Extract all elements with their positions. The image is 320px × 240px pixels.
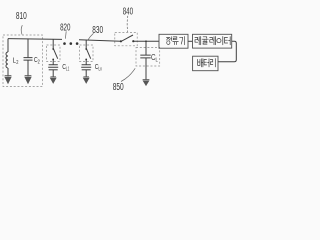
svg-text:Ln: Ln: [99, 67, 102, 73]
svg-text:2: 2: [16, 60, 18, 66]
svg-text:810: 810: [16, 11, 27, 22]
svg-text:L1: L1: [66, 67, 69, 73]
svg-text:2: 2: [38, 60, 40, 66]
svg-text:850: 850: [113, 82, 124, 93]
svg-text:L: L: [156, 58, 158, 64]
svg-text:820: 820: [60, 23, 71, 34]
svg-text:830: 830: [92, 25, 103, 36]
